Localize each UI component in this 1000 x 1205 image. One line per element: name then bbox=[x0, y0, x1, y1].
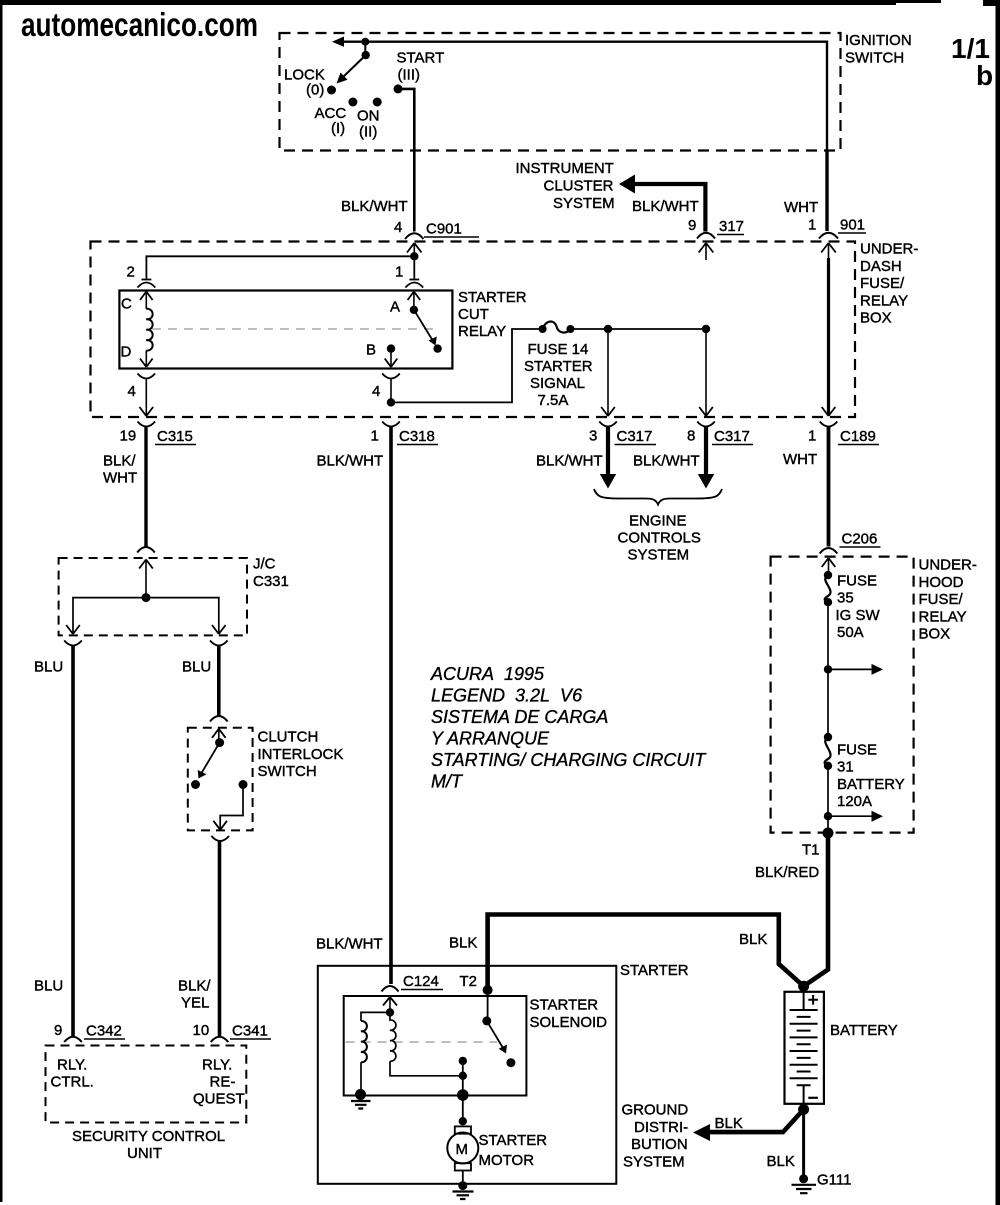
svg-text:(II): (II) bbox=[359, 124, 377, 141]
svg-text:INSTRUMENT: INSTRUMENT bbox=[516, 160, 614, 177]
svg-text:STARTING/ CHARGING CIRCUIT: STARTING/ CHARGING CIRCUIT bbox=[431, 750, 707, 770]
connector female arc above clutch switch bbox=[210, 716, 228, 722]
junction node above relay pin 1 bbox=[410, 252, 418, 260]
wire clutch lower contact to exit bbox=[220, 785, 243, 821]
J/C right exit arrow bbox=[212, 625, 226, 634]
relay internal linkage (gray dashed) bbox=[152, 328, 433, 330]
J/C branch wires bbox=[73, 598, 219, 624]
connector C341 underline bbox=[230, 1038, 271, 1040]
relay pin B wire and arrow at box edge bbox=[385, 349, 398, 367]
svg-text:8: 8 bbox=[687, 428, 695, 445]
svg-text:Y ARRANQUE: Y ARRANQUE bbox=[431, 729, 550, 749]
wire BLK/WHT C318 down to starter bbox=[389, 427, 393, 985]
svg-text:A: A bbox=[390, 299, 400, 316]
svg-text:2: 2 bbox=[127, 264, 135, 281]
svg-text:CONTROLS: CONTROLS bbox=[618, 530, 701, 547]
thick arrow to engine controls (pin8) bbox=[698, 427, 714, 489]
svg-text:C901: C901 bbox=[426, 221, 462, 238]
svg-text:IGNITION: IGNITION bbox=[845, 32, 912, 49]
wire C901 node to relay pins 1 and 2 bbox=[146, 256, 414, 278]
svg-text:G111: G111 bbox=[817, 1172, 851, 1189]
svg-text:ON: ON bbox=[357, 108, 380, 125]
relay pin 2 terminal bar and arc bbox=[138, 280, 156, 288]
svg-text:BLK/WHT: BLK/WHT bbox=[317, 453, 384, 470]
battery positive node bbox=[798, 981, 809, 992]
ignition switch wiper arrow bbox=[332, 37, 344, 47]
J/C left socket arc below box bbox=[64, 641, 82, 646]
under-dash fuse/relay box bbox=[91, 242, 856, 418]
svg-text:BUTION: BUTION bbox=[631, 1136, 688, 1153]
solenoid switch arm arrowhead bbox=[499, 1045, 507, 1054]
relay switch contact node (arm landing) bbox=[433, 344, 441, 352]
svg-text:UNIT: UNIT bbox=[127, 1145, 162, 1162]
branch node IG SW feed bbox=[824, 665, 832, 673]
wire 901 connector down to C189 bbox=[827, 258, 830, 415]
connector C318 underline bbox=[397, 444, 438, 446]
svg-text:IG SW: IG SW bbox=[836, 607, 881, 624]
svg-text:QUEST: QUEST bbox=[193, 1091, 245, 1108]
svg-text:ENGINE: ENGINE bbox=[629, 513, 687, 530]
wire WHT C189 to C206 bbox=[827, 427, 831, 547]
security control unit box bbox=[46, 1046, 247, 1123]
svg-text:UNDER-: UNDER- bbox=[919, 557, 977, 574]
svg-text:SISTEMA DE CARGA: SISTEMA DE CARGA bbox=[431, 707, 608, 727]
starter cut relay label bbox=[458, 289, 527, 340]
solenoid pull-in coil bbox=[361, 1021, 367, 1062]
svg-text:C315: C315 bbox=[157, 428, 193, 445]
svg-text:HOOD: HOOD bbox=[919, 574, 964, 591]
svg-text:4: 4 bbox=[372, 383, 380, 400]
node rotor pivot bbox=[362, 51, 370, 59]
connector C342 underline bbox=[84, 1038, 125, 1040]
svg-text:9: 9 bbox=[54, 1022, 62, 1039]
svg-text:BOX: BOX bbox=[860, 310, 892, 327]
J/C splice node bbox=[142, 593, 151, 602]
svg-text:RELAY: RELAY bbox=[860, 292, 908, 309]
svg-text:C318: C318 bbox=[399, 428, 435, 445]
svg-text:GROUND: GROUND bbox=[622, 1102, 689, 1119]
connector 317 female arc bbox=[697, 233, 715, 239]
solenoid C124 male arrow bbox=[383, 997, 397, 1012]
branch arrow to other circuits (upper) bbox=[828, 664, 883, 675]
connector C315 underline bbox=[155, 444, 196, 446]
clutch switch exit arrow bbox=[213, 820, 227, 830]
page border top bar bbox=[0, 0, 1000, 6]
svg-text:BATTERY: BATTERY bbox=[837, 776, 905, 793]
security control unit label bbox=[72, 1128, 225, 1162]
svg-text:BLK/: BLK/ bbox=[103, 453, 136, 470]
wire fuse 35 to branch node bbox=[827, 602, 829, 669]
under-hood fuse/relay box label bbox=[919, 557, 977, 643]
svg-text:LEGEND 3.2L V6: LEGEND 3.2L V6 bbox=[431, 686, 583, 706]
svg-text:BLU: BLU bbox=[34, 659, 63, 676]
svg-text:M/T: M/T bbox=[431, 772, 464, 792]
thick wire battery negative to ground distribution bbox=[706, 1109, 804, 1132]
clutch switch arm arrowhead bbox=[198, 770, 207, 779]
instrument cluster system label bbox=[516, 160, 615, 212]
svg-text:DISTRI-: DISTRI- bbox=[634, 1119, 688, 1136]
svg-text:M: M bbox=[456, 1141, 469, 1158]
relay pin A arrow bbox=[408, 292, 421, 310]
thick arrow to instrument cluster bbox=[619, 175, 635, 194]
relay pin B node bbox=[387, 344, 395, 352]
wire BLK/RED T1 to battery positive bbox=[804, 833, 828, 986]
svg-text:STARTER: STARTER bbox=[530, 997, 599, 1014]
connector C317 underline (pin3) bbox=[615, 444, 657, 446]
svg-text:317: 317 bbox=[719, 218, 744, 235]
contact ACC (I) bbox=[348, 98, 357, 107]
svg-text:901: 901 bbox=[840, 217, 865, 234]
node on wiper wire bbox=[361, 38, 369, 46]
clutch switch contact node (top) bbox=[215, 738, 224, 747]
svg-text:CTRL.: CTRL. bbox=[51, 1074, 94, 1091]
fuse 14 label bbox=[524, 341, 593, 409]
svg-text:RLY.: RLY. bbox=[57, 1057, 87, 1074]
svg-text:YEL: YEL bbox=[181, 995, 209, 1012]
brace under engine controls arrows bbox=[594, 489, 722, 505]
connector C901 male arrow below box line bbox=[407, 243, 422, 257]
svg-text:BLK/: BLK/ bbox=[178, 978, 211, 995]
socket arc below clutch switch bbox=[211, 836, 229, 841]
wire hold-in coil to motor feed bbox=[390, 1061, 463, 1076]
junction connector J/C C331 box bbox=[59, 558, 247, 635]
svg-text:SWITCH: SWITCH bbox=[258, 763, 317, 780]
wire pull-in coil to ground bbox=[360, 1062, 362, 1094]
svg-text:C: C bbox=[121, 296, 132, 313]
svg-text:BLK/WHT: BLK/WHT bbox=[316, 936, 383, 953]
starter solenoid label bbox=[530, 997, 608, 1031]
svg-text:BLK/WHT: BLK/WHT bbox=[632, 198, 699, 215]
battery negative node bbox=[798, 1104, 809, 1115]
svg-text:CLUTCH: CLUTCH bbox=[258, 729, 319, 746]
connector C124 underline bbox=[401, 989, 443, 991]
solenoid switch contact node (motor side) bbox=[506, 1058, 515, 1067]
svg-text:SWITCH: SWITCH bbox=[845, 50, 904, 67]
svg-text:120A: 120A bbox=[837, 793, 872, 810]
wire to T1 node bbox=[827, 816, 829, 833]
starter motor label bbox=[479, 1132, 548, 1169]
svg-text:BATTERY: BATTERY bbox=[830, 1022, 898, 1039]
connector C206 male arrow bbox=[822, 558, 836, 575]
fuse 35 element bbox=[824, 571, 832, 607]
clutch switch entry arrow bbox=[212, 729, 226, 743]
solenoid switch contact node (T2 side) bbox=[482, 1016, 491, 1025]
svg-text:FUSE 14: FUSE 14 bbox=[528, 341, 589, 358]
under-dash fuse/relay box label bbox=[860, 241, 918, 327]
wire from wiper across top and down right side of ignition box bbox=[343, 42, 827, 151]
svg-text:FUSE: FUSE bbox=[837, 742, 877, 759]
svg-text:BLK/WHT: BLK/WHT bbox=[341, 198, 408, 215]
node fuse to 317 column bbox=[702, 325, 710, 333]
wire to pull-in coil bbox=[361, 1012, 390, 1021]
svg-text:FUSE/: FUSE/ bbox=[860, 275, 905, 292]
starter motor M1 bbox=[447, 1126, 478, 1170]
wire BLK/WHT C315 to J/C C331 bbox=[144, 427, 147, 548]
connector 317 male arrow bbox=[699, 243, 714, 260]
svg-text:b: b bbox=[976, 60, 993, 91]
branch arrow to other circuits (lower) bbox=[828, 811, 883, 822]
motor feed stub node bbox=[459, 1057, 467, 1065]
svg-text:31: 31 bbox=[837, 759, 854, 776]
svg-text:C317: C317 bbox=[714, 428, 750, 445]
connector C331 female arc bbox=[137, 547, 155, 553]
thick wire from 317 connector to instrument cluster arrow bbox=[633, 184, 705, 232]
svg-text:4: 4 bbox=[394, 219, 402, 236]
connector C317 underline (pin8) bbox=[712, 444, 753, 446]
svg-text:automecanico.com: automecanico.com bbox=[21, 6, 258, 43]
svg-text:3: 3 bbox=[589, 428, 597, 445]
node T2 bbox=[483, 985, 493, 995]
wire node to relay pin 1 bbox=[413, 256, 415, 278]
fuse 31 label bbox=[837, 742, 905, 811]
branch node battery feed bbox=[824, 812, 832, 820]
svg-text:1: 1 bbox=[808, 428, 816, 445]
svg-text:WHT: WHT bbox=[783, 451, 817, 468]
connector C317 pin3 socket arc bbox=[599, 422, 617, 427]
svg-text:SECURITY CONTROL: SECURITY CONTROL bbox=[72, 1128, 225, 1145]
connector 901 female arc bbox=[819, 233, 838, 239]
wire battery negative to G111 bbox=[802, 1109, 805, 1178]
node on solenoid box edge bbox=[457, 1089, 469, 1101]
node hold-in coil junction bbox=[459, 1072, 467, 1080]
ground G111 bbox=[792, 1174, 817, 1193]
starter box bbox=[318, 966, 617, 1184]
connector C189 underline bbox=[838, 444, 879, 446]
ignition switch box bbox=[280, 33, 841, 151]
relay pin B socket arc below box bbox=[382, 374, 400, 379]
svg-text:1: 1 bbox=[395, 264, 403, 281]
contact LOCK (0) bbox=[327, 86, 336, 95]
contact ON (II) bbox=[373, 98, 382, 107]
solenoid hold-in coil bbox=[390, 1012, 396, 1061]
svg-text:CLUSTER: CLUSTER bbox=[544, 178, 614, 195]
connector C124 female arc bbox=[382, 986, 399, 992]
J/C C331 label bbox=[253, 556, 289, 590]
solenoid coil ground node bbox=[355, 1089, 366, 1100]
wire motor feed through box edge bbox=[462, 1061, 464, 1121]
label BLK/ YEL bbox=[178, 978, 211, 1012]
svg-text:(III): (III) bbox=[398, 67, 421, 84]
svg-text:STARTER: STARTER bbox=[524, 358, 593, 375]
svg-text:9: 9 bbox=[688, 217, 696, 234]
svg-text:STARTER: STARTER bbox=[458, 289, 527, 306]
wire fuse node down to C317 pin 3 arrow bbox=[601, 329, 615, 416]
battery B1 bbox=[785, 992, 824, 1104]
solenoid linkage (gray dashed) bbox=[346, 1041, 498, 1043]
page border right bar bbox=[996, 0, 1000, 1205]
svg-text:BLK: BLK bbox=[739, 931, 767, 948]
relay pin D arrow bbox=[140, 351, 153, 368]
ignition switch label bbox=[845, 32, 912, 67]
relay pin C arrow bbox=[140, 292, 153, 309]
node motor terminal bbox=[459, 1117, 467, 1125]
svg-text:WHT: WHT bbox=[103, 470, 137, 487]
engine controls system label bbox=[618, 513, 701, 564]
connector C206 female arc bbox=[820, 548, 838, 554]
rotor arm toward LOCK bbox=[343, 55, 366, 77]
starter solenoid box bbox=[344, 996, 527, 1096]
svg-text:C317: C317 bbox=[617, 428, 653, 445]
solenoid switch arm bbox=[487, 1021, 503, 1048]
svg-text:C341: C341 bbox=[232, 1023, 268, 1040]
relay coil bbox=[146, 309, 152, 351]
svg-text:BLK: BLK bbox=[715, 1115, 743, 1132]
svg-text:DASH: DASH bbox=[860, 258, 902, 275]
starter cut relay box bbox=[119, 291, 452, 369]
relay switch arm arrowhead bbox=[429, 337, 437, 346]
svg-text:B: B bbox=[366, 342, 376, 359]
ground (starter motor) bbox=[453, 1192, 474, 1200]
svg-text:4: 4 bbox=[128, 383, 136, 400]
fuse 35 label bbox=[836, 573, 881, 642]
connector C189 socket arc bbox=[820, 422, 838, 427]
svg-text:BLU: BLU bbox=[34, 978, 63, 995]
J/C left exit arrow bbox=[66, 625, 80, 634]
svg-text:1: 1 bbox=[808, 217, 816, 234]
svg-text:INTERLOCK: INTERLOCK bbox=[258, 746, 344, 763]
clutch switch contact node (lower left) bbox=[191, 780, 200, 789]
connector C206 underline bbox=[840, 546, 881, 548]
svg-text:STARTER: STARTER bbox=[479, 1132, 548, 1149]
svg-text:10: 10 bbox=[193, 1022, 210, 1039]
svg-text:BLK: BLK bbox=[449, 935, 477, 952]
connector C331 male arrow bbox=[139, 560, 153, 598]
svg-text:CUT: CUT bbox=[458, 306, 489, 323]
svg-text:START: START bbox=[397, 50, 445, 67]
contact START (III) bbox=[394, 84, 403, 93]
svg-text:SIGNAL: SIGNAL bbox=[530, 375, 585, 392]
connector C342 female arc bbox=[64, 1037, 82, 1042]
connector C901 underline bbox=[424, 236, 479, 238]
wire T2 to switch contact bbox=[487, 990, 489, 1021]
svg-text:C189: C189 bbox=[840, 428, 876, 445]
wire motor to ground bbox=[462, 1171, 464, 1186]
arrow to ground distribution system bbox=[693, 1124, 710, 1141]
relay switch arm bbox=[414, 310, 433, 341]
security control unit pin labels bbox=[51, 1057, 245, 1108]
page border left bar bbox=[0, 0, 3, 1202]
svg-text:RELAY: RELAY bbox=[458, 323, 506, 340]
wire fuse 14 to 317 column bbox=[571, 328, 707, 330]
wire relay D to under-dash edge with arrow bbox=[140, 378, 154, 416]
svg-text:SOLENOID: SOLENOID bbox=[530, 1014, 608, 1031]
connector C317 pin8 socket arc bbox=[697, 422, 715, 427]
fuse 14 element bbox=[539, 322, 575, 333]
wire 317 column down to C317 pin 8 arrow bbox=[699, 329, 713, 416]
svg-text:BLK/WHT: BLK/WHT bbox=[536, 453, 603, 470]
connector C315 socket arc below under-dash box bbox=[138, 422, 156, 427]
wire relay B down to fuse branch node bbox=[390, 378, 392, 402]
svg-text:STARTER: STARTER bbox=[620, 962, 689, 979]
connector C901 female arc bbox=[405, 233, 424, 239]
relay pin D socket arc below box bbox=[138, 374, 156, 379]
svg-text:7.5A: 7.5A bbox=[538, 392, 569, 409]
svg-text:1: 1 bbox=[371, 428, 379, 445]
thick wire ignition box to 901 bbox=[825, 151, 828, 232]
svg-text:D: D bbox=[121, 344, 132, 361]
node T1 on box edge bbox=[823, 828, 834, 839]
clutch interlock switch box bbox=[188, 728, 253, 831]
label BLK/ WHT (left column) bbox=[103, 453, 137, 487]
arrow at C189 edge bbox=[822, 407, 836, 416]
svg-text:RE-: RE- bbox=[210, 1074, 236, 1091]
clutch switch contact node (lower right) bbox=[239, 780, 248, 789]
svg-text:C124: C124 bbox=[403, 973, 439, 990]
svg-text:BOX: BOX bbox=[919, 626, 951, 643]
connector 901 underline bbox=[838, 232, 866, 234]
vehicle description text block bbox=[430, 664, 707, 792]
svg-text:C342: C342 bbox=[86, 1023, 122, 1040]
rotor arm arrowhead bbox=[337, 73, 348, 84]
svg-text:UNDER-: UNDER- bbox=[860, 241, 918, 258]
svg-text:SYSTEM: SYSTEM bbox=[623, 1153, 685, 1170]
ground (solenoid) bbox=[351, 1101, 371, 1109]
wire B branch to fuse 14 bbox=[391, 329, 543, 402]
connector 317 underline bbox=[717, 234, 744, 236]
svg-text:50A: 50A bbox=[837, 624, 864, 641]
svg-text:35: 35 bbox=[837, 590, 854, 607]
wire from START contact down to C901 bbox=[398, 89, 414, 232]
svg-text:C206: C206 bbox=[842, 531, 878, 548]
svg-text:SYSTEM: SYSTEM bbox=[628, 547, 690, 564]
connector C341 female arc bbox=[211, 1037, 229, 1042]
svg-text:BLK/WHT: BLK/WHT bbox=[633, 453, 700, 470]
relay pin 1 terminal bar and arc bbox=[405, 280, 423, 288]
svg-text:19: 19 bbox=[120, 428, 137, 445]
ground distribution system label bbox=[622, 1102, 689, 1171]
svg-text:(0): (0) bbox=[306, 82, 324, 99]
wire BLU right column J/C to clutch switch bbox=[217, 645, 221, 716]
svg-text:RELAY: RELAY bbox=[919, 608, 967, 625]
wire fuse 31 to battery branch node bbox=[827, 766, 829, 816]
svg-text:C331: C331 bbox=[253, 573, 289, 590]
wire down to fuse 31 bbox=[827, 669, 829, 737]
svg-text:(I): (I) bbox=[331, 120, 345, 137]
node fuse to C317 pin 3 bbox=[604, 325, 612, 333]
svg-text:ACURA 1995: ACURA 1995 bbox=[430, 664, 545, 684]
relay switch contact A node bbox=[410, 306, 418, 314]
J/C right socket arc below box bbox=[210, 641, 228, 646]
svg-text:SYSTEM: SYSTEM bbox=[553, 195, 615, 212]
wire BLK/YEL clutch switch to C341 bbox=[218, 841, 222, 1036]
svg-text:BLK: BLK bbox=[767, 1153, 795, 1170]
svg-text:T2: T2 bbox=[460, 973, 478, 990]
svg-text:BLK/RED: BLK/RED bbox=[755, 864, 819, 881]
wire BLK starter T2 feed (thick) bbox=[488, 915, 804, 991]
solenoid coil feed node bbox=[386, 1008, 394, 1016]
svg-text:FUSE/: FUSE/ bbox=[919, 591, 964, 608]
svg-text:T1: T1 bbox=[802, 842, 820, 859]
motor ground node bbox=[458, 1181, 467, 1190]
connector 901 male arrow bbox=[821, 243, 836, 260]
node B branch bbox=[387, 398, 395, 406]
svg-text:RLY.: RLY. bbox=[202, 1057, 232, 1074]
connector C318 socket arc bbox=[382, 422, 400, 427]
wire BLU left column J/C to C342 bbox=[71, 645, 75, 1036]
wire short drop to rotor pivot bbox=[364, 42, 366, 55]
clutch switch arm bbox=[202, 743, 220, 773]
svg-text:J/C: J/C bbox=[253, 556, 276, 573]
svg-text:BLU: BLU bbox=[182, 659, 211, 676]
svg-text:WHT: WHT bbox=[784, 199, 818, 216]
svg-text:MOTOR: MOTOR bbox=[479, 1152, 535, 1169]
svg-text:FUSE: FUSE bbox=[837, 573, 877, 590]
thick arrow to engine controls (pin3) bbox=[600, 427, 616, 489]
under-hood fuse/relay box bbox=[771, 557, 914, 833]
fuse 31 element bbox=[824, 733, 832, 770]
clutch interlock switch label bbox=[258, 729, 344, 781]
